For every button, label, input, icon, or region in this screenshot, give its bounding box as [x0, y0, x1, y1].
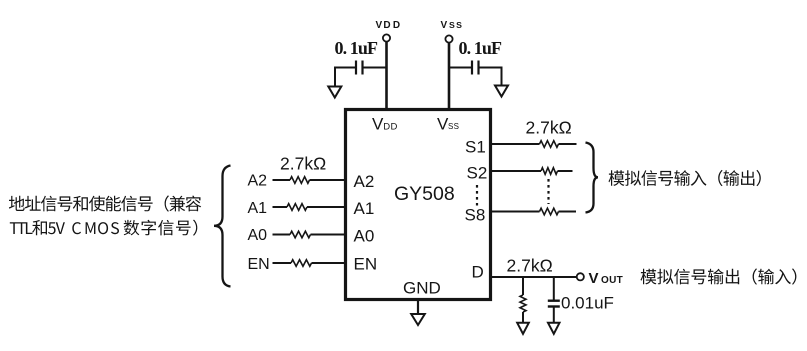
svg-text:OUT: OUT [601, 275, 623, 286]
wire A0 left segment [273, 234, 291, 236]
svg-text:VSS: VSS [441, 20, 464, 31]
svg-text:GND: GND [403, 279, 441, 298]
resistor R7 [540, 208, 559, 215]
wire S1 stub [559, 143, 577, 145]
svg-text:GY508: GY508 [394, 183, 455, 205]
brace right (analog inputs) [586, 143, 599, 213]
wire A1 right segment [307, 206, 347, 208]
wire D output [489, 276, 577, 278]
wire C1 right plate to VDD [364, 67, 387, 69]
svg-text:S2: S2 [467, 164, 488, 183]
annotation text (analog signal input) [609, 170, 761, 186]
svg-text:A2: A2 [354, 172, 375, 191]
svg-text:D: D [472, 263, 484, 282]
svg-text:EN: EN [354, 255, 378, 274]
svg-text:S8: S8 [465, 206, 486, 225]
svg-text:A1: A1 [354, 199, 375, 218]
wire A1 left segment [273, 206, 288, 208]
ground G4 [548, 323, 560, 334]
svg-text:A0: A0 [354, 227, 375, 246]
svg-text:2.7kΩ: 2.7kΩ [507, 256, 553, 276]
capacitor C1 plates [356, 61, 363, 75]
brace left (address group) [214, 166, 231, 287]
wire VSS vertical [448, 43, 451, 112]
wire GND stub [417, 299, 419, 314]
ground G1 [328, 87, 341, 98]
svg-text:A2: A2 [248, 173, 268, 190]
wire C3 branch [553, 277, 555, 300]
wire S2 stub [558, 170, 573, 172]
dotted line S2..S8 (inside) [476, 185, 478, 206]
resistor R9 (vertical) [520, 295, 526, 312]
annotation text line1 (address signals) [9, 195, 201, 211]
resistor R5 [540, 141, 559, 148]
wire VDD vertical [385, 42, 388, 112]
svg-text:EN: EN [248, 256, 270, 273]
wire S8 from IC [489, 211, 540, 213]
wire A2 right segment [310, 179, 348, 181]
wire C1 left plate to ground [335, 68, 355, 87]
dotted line S2..S8 (outside) [547, 179, 549, 204]
svg-text:S1: S1 [465, 138, 486, 157]
wire EN left segment [273, 262, 292, 264]
resistor R4 [291, 260, 312, 267]
capacitor C2 plates [472, 61, 479, 75]
wire EN right segment [312, 262, 348, 264]
terminal VOUT [577, 273, 584, 280]
resistor R6 [541, 168, 558, 175]
op-amp/IC U1 GY508 body [346, 110, 491, 300]
terminal VDD [383, 34, 390, 41]
svg-text:0.01uF: 0.01uF [561, 294, 614, 313]
svg-text:DD: DD [383, 122, 398, 133]
wire A2 left segment [273, 179, 291, 181]
svg-text:2.7kΩ: 2.7kΩ [280, 154, 326, 174]
wire R9 to ground [522, 312, 524, 323]
capacitor C3 plates [548, 301, 560, 307]
ground G3 [517, 323, 529, 334]
wire A0 right segment [311, 234, 348, 236]
annotation text line2 (TTL and 5V CMOS) [10, 220, 198, 236]
svg-text:SS: SS [448, 122, 459, 131]
svg-text:A0: A0 [248, 227, 268, 244]
wire S8 stub [559, 211, 577, 213]
svg-text:0. 1uF: 0. 1uF [335, 38, 379, 58]
wire S2 from IC [489, 170, 541, 172]
wire R9 branch [522, 277, 524, 295]
resistor R1 [290, 177, 309, 184]
svg-text:VDD: VDD [376, 20, 403, 31]
ground G5 [411, 314, 425, 325]
wire S1 from IC [489, 143, 540, 145]
wire VSS to C2 left plate [449, 67, 471, 69]
wire C3 to ground [553, 308, 555, 323]
svg-text:0. 1uF: 0. 1uF [459, 38, 503, 58]
svg-text:V: V [589, 270, 599, 287]
wire C2 right plate to ground [480, 68, 502, 86]
annotation text (analog signal output) [641, 268, 797, 284]
resistor R3 [290, 231, 311, 238]
resistor R2 [287, 204, 307, 211]
svg-text:A1: A1 [248, 200, 268, 217]
terminal VSS [445, 35, 452, 42]
svg-text:2.7kΩ: 2.7kΩ [526, 118, 572, 138]
ground G2 [495, 86, 508, 97]
svg-text:V: V [372, 115, 384, 134]
